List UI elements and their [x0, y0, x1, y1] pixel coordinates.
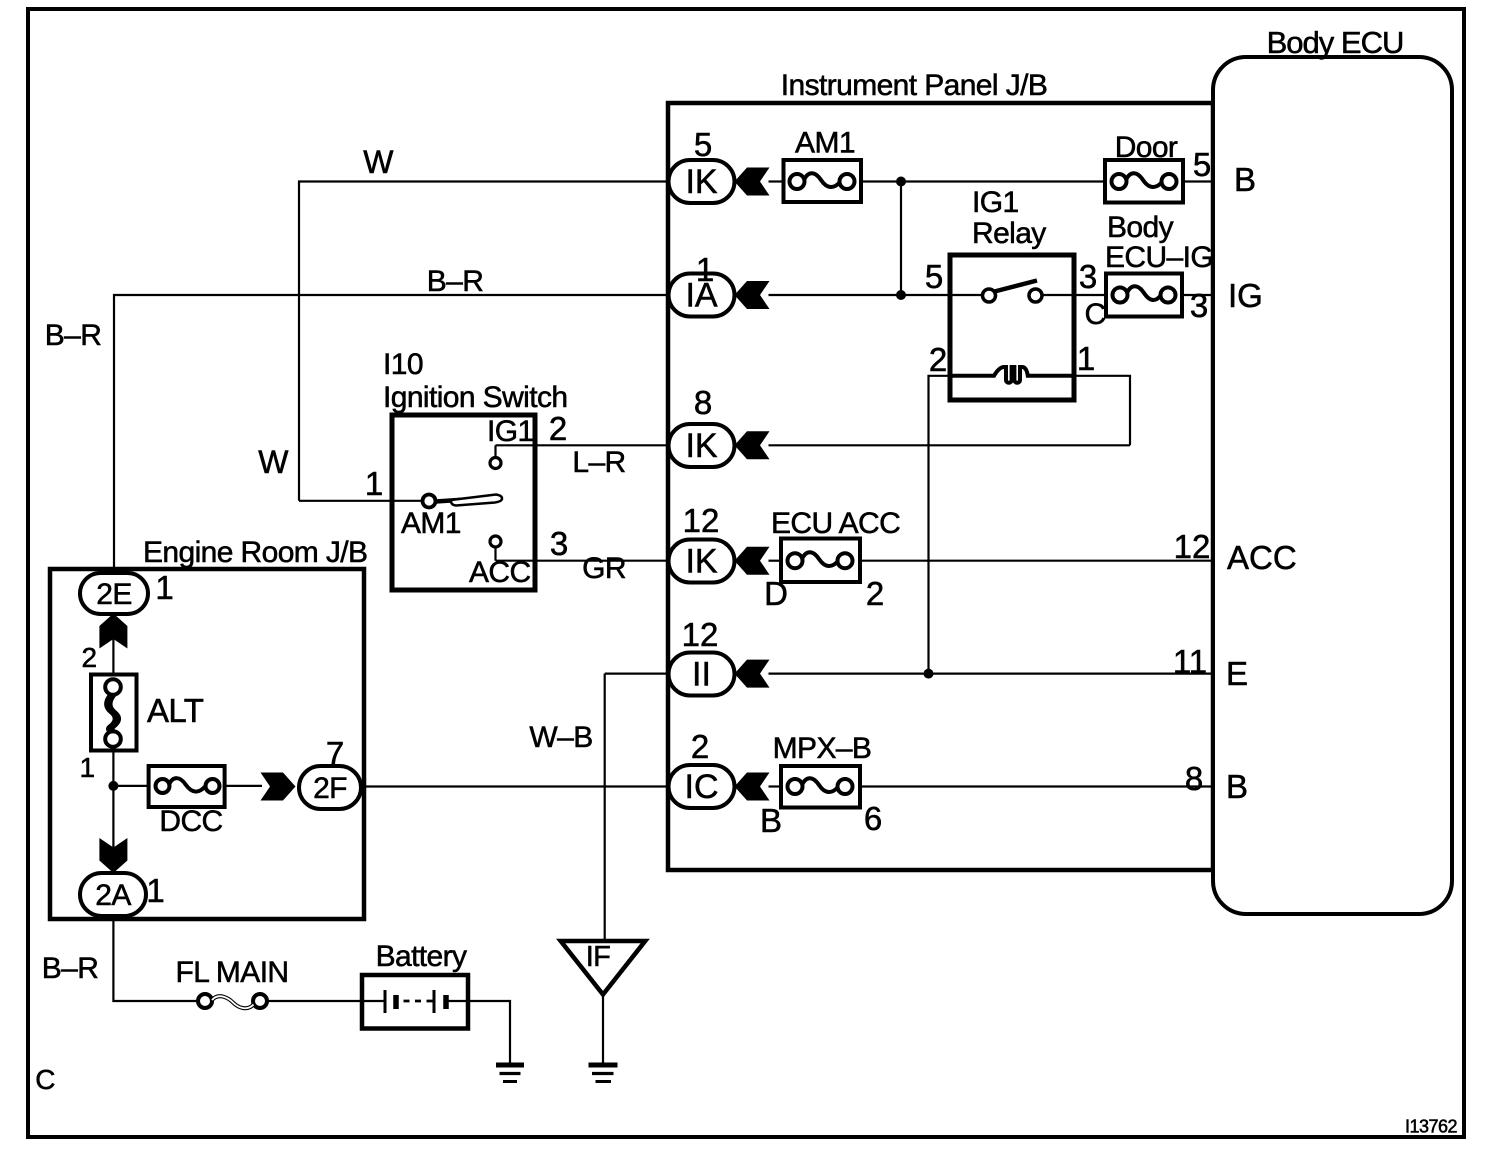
svg-text:ECU ACC: ECU ACC [771, 507, 900, 540]
svg-text:IK: IK [685, 427, 717, 465]
svg-text:B–R: B–R [42, 952, 99, 985]
svg-text:IG1: IG1 [487, 415, 534, 448]
svg-text:W: W [258, 444, 289, 480]
svg-text:W: W [363, 144, 394, 180]
svg-text:MPX–B: MPX–B [773, 732, 872, 765]
svg-text:2F: 2F [313, 772, 347, 805]
svg-text:2: 2 [929, 341, 947, 378]
svg-text:2: 2 [691, 728, 709, 765]
svg-text:ALT: ALT [147, 692, 204, 729]
svg-text:AM1: AM1 [401, 507, 461, 540]
svg-text:12: 12 [683, 502, 720, 539]
svg-text:Relay: Relay [972, 217, 1046, 250]
svg-text:C: C [35, 1064, 55, 1095]
svg-text:IK: IK [685, 163, 717, 201]
svg-text:Battery: Battery [376, 940, 467, 973]
svg-text:3: 3 [1190, 287, 1208, 324]
svg-text:IF: IF [586, 941, 611, 973]
svg-text:Body ECU: Body ECU [1267, 25, 1404, 60]
svg-text:IK: IK [685, 543, 717, 581]
svg-text:2: 2 [866, 575, 884, 612]
svg-text:D: D [764, 575, 788, 612]
svg-text:I10: I10 [383, 348, 423, 381]
svg-text:W–B: W–B [529, 721, 592, 754]
svg-text:C: C [1084, 298, 1105, 331]
svg-text:2A: 2A [95, 879, 131, 912]
svg-text:7: 7 [326, 735, 344, 772]
svg-text:Body: Body [1107, 211, 1174, 244]
svg-text:IA: IA [685, 277, 717, 315]
svg-text:2: 2 [82, 642, 97, 673]
svg-text:ACC: ACC [1227, 539, 1297, 576]
svg-text:IC: IC [685, 768, 719, 806]
svg-text:FL MAIN: FL MAIN [175, 956, 288, 989]
svg-text:1: 1 [155, 569, 173, 606]
svg-text:1: 1 [80, 752, 95, 783]
svg-text:I13762: I13762 [1405, 1117, 1458, 1137]
svg-text:3: 3 [1079, 258, 1097, 295]
svg-text:5: 5 [694, 126, 712, 163]
svg-text:8: 8 [1185, 760, 1203, 797]
svg-text:L–R: L–R [572, 446, 625, 479]
svg-text:ACC: ACC [469, 556, 531, 589]
svg-text:Ignition Switch: Ignition Switch [383, 381, 567, 414]
svg-text:AM1: AM1 [795, 127, 855, 160]
svg-text:11: 11 [1173, 643, 1207, 680]
svg-text:12: 12 [1174, 528, 1211, 565]
svg-text:IG1: IG1 [972, 186, 1019, 219]
svg-text:1: 1 [1077, 340, 1095, 377]
svg-text:Instrument Panel J/B: Instrument Panel J/B [781, 69, 1047, 102]
svg-text:Engine Room J/B: Engine Room J/B [143, 536, 367, 569]
svg-text:E: E [1226, 655, 1248, 692]
svg-text:5: 5 [1193, 146, 1211, 183]
svg-text:3: 3 [550, 525, 568, 562]
svg-text:Door: Door [1115, 131, 1178, 164]
svg-text:2E: 2E [96, 578, 132, 611]
svg-text:12: 12 [682, 616, 719, 653]
svg-text:1: 1 [365, 465, 383, 502]
svg-text:GR: GR [582, 552, 626, 585]
svg-text:DCC: DCC [159, 805, 222, 838]
svg-text:B: B [1234, 161, 1256, 198]
svg-text:B–R: B–R [427, 265, 484, 298]
svg-text:B: B [760, 802, 782, 839]
svg-text:5: 5 [925, 258, 943, 295]
svg-text:6: 6 [864, 800, 882, 837]
svg-text:II: II [692, 656, 711, 694]
svg-text:ECU–IG: ECU–IG [1105, 241, 1213, 274]
svg-text:8: 8 [694, 384, 712, 421]
svg-text:B–R: B–R [45, 319, 102, 352]
svg-text:1: 1 [146, 872, 164, 909]
svg-text:IG: IG [1228, 277, 1263, 314]
svg-text:B: B [1226, 768, 1248, 805]
svg-text:2: 2 [549, 410, 567, 447]
